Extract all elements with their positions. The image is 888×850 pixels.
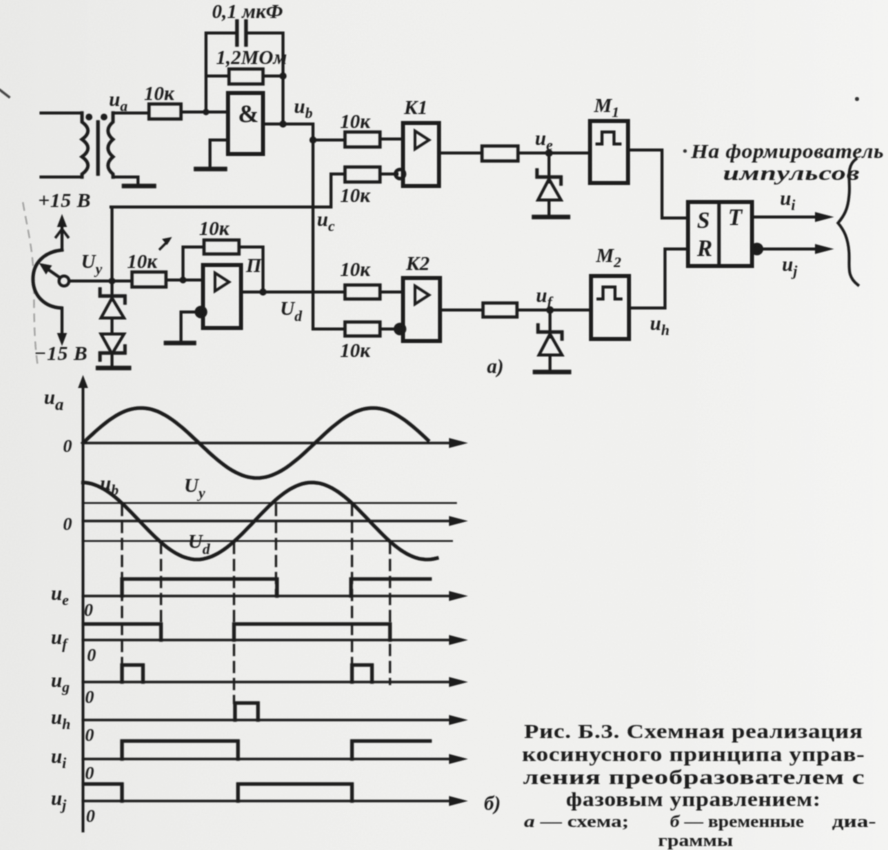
- monostable M1 pulse symbol: [597, 132, 620, 144]
- wire R7 to output: [239, 247, 263, 292]
- potentiometer arc: [33, 250, 62, 308]
- trigger U2 inverting bubble: [752, 244, 761, 253]
- zener diode VD3 cathode bar: [100, 289, 125, 303]
- svg-text:1,2МОм: 1,2МОм: [216, 47, 287, 69]
- diagram 2 level line U_y: [83, 502, 456, 504]
- waveform u_f pulses: [84, 624, 390, 640]
- wire K2 output: [440, 309, 483, 312]
- dashed marker x=273: [275, 505, 277, 596]
- node u_e junction: [545, 149, 553, 157]
- ground (VD1): [534, 215, 568, 220]
- svg-text:0: 0: [63, 514, 72, 534]
- wire R3 to K1 inverting input: [380, 173, 397, 176]
- wire M1 output to S input: [628, 150, 688, 218]
- transformer T1 polarity dot right: [101, 114, 108, 121]
- svg-text:Рис. Б.3. Схемная реализация: Рис. Б.3. Схемная реализация: [524, 721, 863, 743]
- waveform u_e pulses: [122, 579, 430, 596]
- wire R2 to K1 input: [380, 138, 403, 141]
- ground (U1): [196, 167, 225, 172]
- svg-text:0: 0: [85, 687, 94, 707]
- resistor R1 10k body: [149, 104, 181, 119]
- ground wire of U1: [210, 140, 228, 168]
- node junction U1 output: [279, 120, 286, 127]
- dashed marker x=122: [121, 505, 123, 666]
- zener diode VD2 ground wire: [549, 355, 552, 371]
- diagram u_j axis: [83, 800, 452, 803]
- resistor Rfb 1,2 MOm body: [229, 69, 263, 84]
- op-amp P triangle: [215, 273, 229, 291]
- zener diode VD2 cathode bar: [538, 325, 562, 339]
- potentiometer wiper terminal: [59, 276, 69, 286]
- svg-text:10к: 10к: [199, 218, 230, 240]
- node junction P input: [180, 277, 187, 284]
- resistor R7 10k body: [204, 240, 239, 254]
- svg-text:10к: 10к: [340, 111, 371, 133]
- transformer T1 polarity dot left: [86, 114, 93, 121]
- transformer T1 primary bottom wire: [41, 176, 82, 179]
- diagram 2 level line U_d: [83, 540, 452, 542]
- brace to pulse shaper: [838, 159, 858, 285]
- zener diode VD4 anode bar: [100, 346, 125, 360]
- svg-text:К2: К2: [405, 253, 430, 275]
- zener diode VD4 ground wire: [111, 353, 114, 367]
- waveform u_b cosine: [83, 483, 437, 560]
- waveform u_g pulses: [122, 665, 372, 682]
- node u_b junction: [309, 136, 316, 143]
- page curl artifact: [23, 203, 38, 368]
- monostable M2 pulse symbol: [598, 287, 621, 299]
- op-amp P ground wire: [181, 312, 196, 342]
- svg-text:0: 0: [85, 763, 94, 783]
- zener diode VD1 cathode bar: [537, 170, 561, 184]
- ground (VD3 VD4): [98, 366, 129, 371]
- wire R6 to op-amp P input: [166, 279, 203, 282]
- monostable M2 box: [591, 276, 629, 339]
- resistor R9 body: [483, 303, 517, 317]
- comparator K2 triangle: [415, 286, 429, 304]
- svg-text:0: 0: [87, 645, 96, 665]
- diagram 2 zero axis: [83, 520, 452, 523]
- svg-text:10к: 10к: [340, 185, 371, 207]
- trigger U2 divider: [717, 202, 720, 266]
- wire feedback up: [183, 247, 204, 280]
- waveform u_i pulses: [122, 741, 430, 759]
- svg-text:0: 0: [63, 436, 72, 456]
- wire secondary bottom to ground: [113, 177, 138, 185]
- resistor R5 10k body: [345, 285, 380, 299]
- comparator K2 inverting bubble: [395, 324, 404, 333]
- dashed marker x=234: [233, 543, 235, 703]
- op-amp P box: [203, 265, 241, 328]
- resistor R4 body: [482, 146, 518, 161]
- wire U_d output line: [241, 291, 345, 294]
- svg-text:0: 0: [85, 725, 94, 745]
- svg-text:0: 0: [86, 806, 95, 826]
- wire u_b to resistor R2: [313, 139, 345, 142]
- svg-text:10к: 10к: [127, 251, 158, 273]
- comparator K1 box: [403, 123, 439, 186]
- capacitor C1 left wire: [206, 32, 237, 35]
- speck: [855, 97, 859, 101]
- wire integrator input node up to feedback: [205, 33, 208, 112]
- svg-text:б — временные: б — временные: [670, 812, 805, 831]
- node u_f junction: [546, 306, 554, 314]
- wire wiper to node U_y: [69, 280, 132, 283]
- trigger U2 box: [688, 202, 752, 266]
- monostable M1 box: [590, 121, 628, 183]
- wire R4 to node u_e: [518, 152, 590, 155]
- potentiometer arrow down to -15V: [61, 308, 64, 338]
- svg-text:+15 В: +15 В: [38, 190, 91, 212]
- diagram u_g axis: [83, 681, 452, 684]
- diagram u_e axis: [83, 595, 452, 598]
- wire output u_j with arrow: [762, 248, 820, 251]
- capacitor C1 plates: [237, 21, 246, 45]
- zener diode VD3 triangle: [101, 298, 124, 318]
- svg-text:10к: 10к: [340, 340, 371, 362]
- wire R8 to K2 inverting input: [380, 328, 396, 331]
- op-amp P inverting bubble: [196, 307, 205, 316]
- svg-text:ления преобразователем с: ления преобразователем с: [523, 767, 865, 789]
- node junction integrator input: [203, 109, 209, 115]
- node junction U_d feedback: [259, 288, 266, 295]
- wire R1 to integrator input node: [181, 111, 228, 114]
- dashed marker x=160: [160, 543, 162, 640]
- wire M2 output to R input: [629, 249, 688, 308]
- transformer T1 primary winding: [82, 113, 88, 177]
- svg-text:а — схема;: а — схема;: [524, 812, 629, 831]
- wire R5 to K2 input: [380, 291, 403, 294]
- speck before text: [683, 149, 687, 153]
- ground (transformer secondary): [124, 184, 154, 189]
- svg-text:T: T: [728, 205, 743, 230]
- wire R9 to node u_f: [517, 309, 591, 312]
- comparator K1 triangle: [415, 131, 429, 149]
- node junction Rfb right: [279, 72, 286, 79]
- op-amp integrator U1 box: [228, 93, 263, 154]
- wire U1 output: [263, 124, 313, 140]
- zener diode VD1 triangle: [538, 179, 561, 200]
- svg-text:граммы: граммы: [658, 831, 733, 850]
- zener diode VD4 triangle: [101, 334, 124, 354]
- svg-text:На формирователь: На формирователь: [690, 141, 884, 163]
- edge mark: [0, 90, 9, 97]
- wire u_c stub up to resistor R3: [331, 174, 345, 207]
- svg-text:&: &: [238, 101, 259, 128]
- wire Uy control line horizontal: [111, 206, 331, 209]
- resistor R3 10k body: [345, 167, 380, 182]
- zener diode VD2 triangle: [539, 334, 562, 355]
- diagram u_f axis: [83, 639, 452, 642]
- diagram u_a axis: [83, 442, 452, 445]
- ground (P): [166, 341, 194, 346]
- diagram u_i axis: [83, 758, 452, 761]
- ground (VD2): [535, 370, 569, 375]
- wire U_y node up to control line: [111, 207, 114, 281]
- node U_y junction: [109, 278, 116, 285]
- waveform u_h pulse: [235, 703, 258, 720]
- wire u_c vertical: [313, 140, 345, 329]
- wire K1 output: [439, 152, 482, 155]
- svg-text:S: S: [697, 208, 710, 233]
- transformer T1 secondary winding: [108, 113, 113, 177]
- comparator K2 box: [403, 278, 440, 341]
- resistor Rfb 1,2 MOm left wire: [206, 75, 229, 78]
- svg-text:0,1 мкФ: 0,1 мкФ: [212, 1, 283, 23]
- potentiometer wiper arrow: [46, 268, 59, 277]
- svg-text:а): а): [487, 356, 504, 378]
- svg-text:диа-: диа-: [832, 812, 876, 831]
- zener diode VD1 wire: [548, 153, 551, 182]
- resistor R6 10k body: [132, 272, 166, 287]
- diagram u_h axis: [83, 719, 452, 722]
- svg-text:10к: 10к: [144, 83, 175, 105]
- transformer T1 core: [96, 122, 100, 174]
- comparator K1 inverting bubble: [395, 169, 404, 178]
- svg-text:−15 В: −15 В: [34, 343, 88, 365]
- svg-text:R: R: [696, 236, 712, 261]
- wire output u_i with arrow: [752, 216, 820, 219]
- potentiometer arrow up to +15V: [61, 222, 64, 249]
- svg-text:косинусного принципа управ-: косинусного принципа управ-: [522, 744, 865, 766]
- zener diode VD3-VD4 wire: [111, 318, 114, 334]
- svg-text:фазовым управлением:: фазовым управлением:: [566, 789, 821, 811]
- dashed marker x=352: [351, 505, 353, 666]
- zener diode VD2 wire: [549, 310, 552, 337]
- capacitor C1 right wire: [246, 32, 283, 35]
- svg-text:импульсов: импульсов: [723, 163, 860, 185]
- svg-text:0: 0: [84, 600, 93, 620]
- wire Rfb to right vertical: [263, 75, 283, 78]
- svg-text:10к: 10к: [340, 259, 371, 281]
- resistor R2 10k body: [345, 132, 380, 147]
- svg-text:б): б): [484, 793, 501, 815]
- dashed marker x=390: [389, 543, 391, 684]
- waveform u_a sine: [83, 408, 428, 478]
- transformer T1 primary top wire: [41, 112, 82, 115]
- resistor R8 10k body: [345, 322, 380, 336]
- zener diode VD3 wire: [111, 281, 114, 300]
- zener diode VD1 ground wire: [548, 200, 551, 216]
- wire secondary top to resistor R1: [113, 112, 149, 115]
- waveform u_j pulses: [84, 784, 352, 801]
- diagrams common vertical axis: [82, 381, 85, 831]
- wire feedback right vertical: [282, 33, 285, 124]
- resistor R6 adjust arrow: [160, 241, 168, 249]
- svg-text:П: П: [245, 255, 263, 277]
- svg-text:К1: К1: [403, 97, 428, 119]
